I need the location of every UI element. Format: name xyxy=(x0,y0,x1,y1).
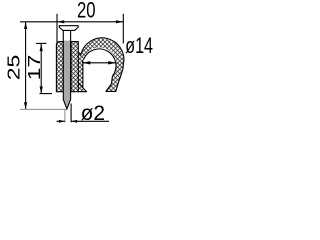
clip ring outer arc xyxy=(79,38,124,65)
clip right leg edges and foot xyxy=(106,65,124,92)
clip left leg fill xyxy=(78,53,86,92)
dim 20 left extension line xyxy=(56,14,58,42)
dim o2 tail underline xyxy=(71,120,109,122)
svg-text:20: 20 xyxy=(77,0,96,23)
dim 17 top extension line xyxy=(36,42,47,44)
clip mouth opening (white) xyxy=(83,61,113,91)
clip left leg outer edge and foot xyxy=(78,83,86,92)
dim 25 line xyxy=(25,22,27,110)
clip cavity arc xyxy=(84,49,116,76)
clip base right column xyxy=(71,42,78,92)
dim 20 right arrow xyxy=(116,20,123,23)
dim 17 bottom extension line xyxy=(40,93,53,95)
dim 25 top arrow xyxy=(24,22,27,29)
nail head xyxy=(59,26,78,31)
clip ring annulus fill xyxy=(80,39,124,83)
dim 17 top arrow xyxy=(40,44,43,51)
dim 20 line xyxy=(20,21,123,23)
dim o2 left extension line xyxy=(64,110,66,123)
dim o14 left arrowhead xyxy=(82,61,90,64)
dim o14 right arrowhead xyxy=(108,61,116,64)
clip right leg fill xyxy=(106,63,124,92)
dim 25 bottom arrow xyxy=(24,102,27,109)
dim o2 left arrow xyxy=(59,120,65,123)
svg-text:25: 25 xyxy=(5,55,24,81)
dim o2 right extension line xyxy=(70,104,72,123)
dim 17 bottom arrow xyxy=(40,86,43,93)
nail shaft with point xyxy=(63,30,70,109)
dim 20 left arrow xyxy=(57,20,64,23)
nail shaft gray section xyxy=(63,41,70,109)
dim 17 line xyxy=(40,43,42,93)
dim o2 left tail xyxy=(57,120,65,122)
dim o14 arrow line xyxy=(82,62,116,64)
dim o2 right arrow xyxy=(71,120,77,123)
dim 20 right extension line xyxy=(122,14,124,44)
clip cavity left wall xyxy=(82,61,84,88)
dim 25 bottom extension line xyxy=(20,108,66,110)
clip base left column xyxy=(56,42,63,92)
svg-text:ø14: ø14 xyxy=(125,35,153,59)
